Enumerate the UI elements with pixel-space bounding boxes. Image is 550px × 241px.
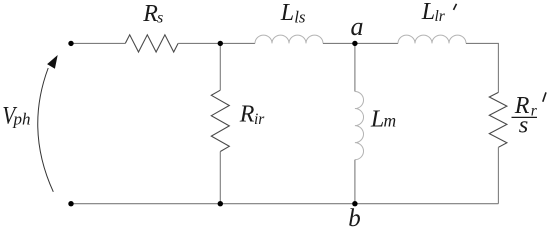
prime of Llr'	[454, 4, 457, 10]
node dot bottom of Rir	[218, 201, 223, 206]
wire node1 down to Rir	[219, 43, 221, 90]
svg-text:m: m	[384, 111, 397, 131]
resistor Rs	[125, 35, 178, 52]
wire right-bottom	[497, 147, 499, 203]
svg-text:s: s	[157, 9, 163, 26]
svg-text:ph: ph	[13, 110, 31, 129]
svg-text:L: L	[370, 107, 384, 133]
node a dot	[352, 41, 357, 46]
svg-text:ls: ls	[294, 7, 306, 26]
fraction bar of Rr'/s	[512, 116, 538, 118]
svg-text:a: a	[351, 12, 364, 41]
inductor Llr'	[398, 35, 466, 43]
svg-text:L: L	[421, 0, 435, 25]
Vph arrowhead	[47, 55, 58, 69]
wire Lls to Llr through node a	[323, 42, 398, 44]
wire node a down to Lm	[354, 43, 356, 91]
wire Lm to node b	[354, 160, 356, 204]
svg-text:L: L	[280, 0, 294, 26]
wire Rir to bottom	[219, 152, 221, 204]
resistor Rir	[211, 90, 229, 151]
wire top-right corner down to Rr zigzag	[466, 43, 498, 92]
wire between Rs and Lls	[178, 42, 255, 44]
node dot top of Rir	[218, 41, 223, 46]
node dot bottom-left terminal	[68, 201, 73, 206]
svg-text:s: s	[519, 112, 529, 139]
inductor Lm	[355, 92, 364, 160]
prime of Rr'	[543, 92, 546, 101]
wire top-left segment	[71, 42, 125, 44]
inductor Lls	[255, 35, 323, 43]
svg-text:R: R	[142, 1, 158, 27]
node dot top-left terminal	[68, 41, 73, 46]
svg-text:b: b	[348, 205, 361, 232]
svg-text:ir: ir	[254, 111, 265, 128]
node b dot	[352, 201, 357, 206]
Vph arrow arc	[38, 68, 54, 192]
resistor Rr'/s	[489, 92, 507, 147]
svg-text:lr: lr	[435, 8, 446, 25]
svg-text:R: R	[239, 102, 255, 128]
wire bottom	[71, 203, 498, 205]
